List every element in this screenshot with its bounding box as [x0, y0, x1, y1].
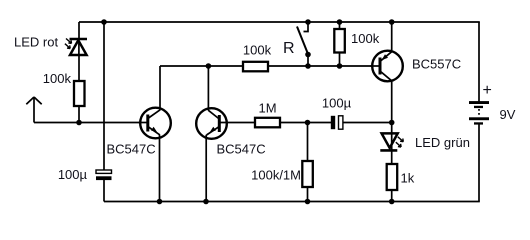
wire LED to R1	[78, 55, 80, 81]
wire cap to LED gruen node	[343, 122, 392, 124]
svg-text:BC547C: BC547C	[107, 142, 156, 157]
resistor 1k (vertical)	[387, 164, 398, 190]
node Q1 emitter / ground	[157, 199, 163, 205]
wire LED to 1k	[391, 150, 393, 164]
wire Q1 emitter	[159, 135, 161, 202]
LED rot (diode, cathode bar top, triangle up)	[70, 39, 88, 55]
LED gruen (diode, triangle down, cathode bar bottom)	[380, 133, 397, 150]
capacitor 100u (left, polarized)	[96, 170, 112, 180]
svg-text:100k: 100k	[43, 71, 72, 86]
wire BC557 collector	[391, 81, 393, 123]
svg-text:+: +	[483, 82, 492, 99]
node 1k ground	[389, 199, 395, 205]
node BC557 emitter / top rail	[389, 19, 395, 25]
1k label	[401, 171, 415, 186]
LED gruen light arrows	[396, 137, 404, 147]
+ label	[483, 82, 492, 99]
wire Q2 emitter	[205, 135, 207, 202]
wire bottom ground rail	[104, 201, 480, 203]
resistor 100k (horizontal)	[243, 62, 268, 72]
node switch pivot	[305, 52, 311, 58]
9V label	[500, 107, 516, 122]
node LED gruen / BC557 collector	[389, 120, 395, 126]
capacitor 100u (horizontal, polarized)	[331, 116, 343, 129]
node 100k/1M ground	[305, 199, 311, 205]
svg-text:1k: 1k	[401, 171, 415, 186]
wire cap to bottom rail	[103, 180, 105, 202]
wire battery top	[478, 22, 480, 102]
wire 1k to ground	[391, 190, 393, 202]
resistor 100k/1M (vertical)	[302, 161, 313, 187]
wire 100k vertical bottom stub	[339, 53, 341, 67]
battery 9V	[469, 101, 489, 125]
node 1M / 100k-1M junction	[305, 120, 311, 126]
100u label (left)	[58, 167, 88, 182]
resistor 1M (horizontal)	[255, 118, 280, 128]
BC557C label	[412, 57, 461, 72]
svg-text:BC547C: BC547C	[217, 142, 266, 157]
svg-text:R: R	[283, 40, 295, 57]
svg-text:100k: 100k	[351, 31, 380, 46]
resistor 100k (left, vertical)	[74, 81, 85, 106]
wire 1M to junction	[280, 122, 331, 124]
node Q2 emitter / ground	[203, 199, 209, 205]
100u label (horizontal cap)	[322, 96, 352, 111]
resistor 100k (middle, vertical)	[334, 29, 345, 53]
wire Q2 base to 1M	[219, 122, 255, 124]
LED rot label	[14, 35, 58, 50]
svg-text:100k: 100k	[243, 43, 272, 58]
100k label (middle vertical)	[351, 31, 380, 46]
switch R	[297, 22, 308, 66]
transistor U3 BC557C (PNP)	[371, 51, 403, 82]
svg-text:BC557C: BC557C	[412, 57, 461, 72]
switch R label	[283, 40, 295, 57]
wire Q1 collector	[159, 66, 161, 110]
wire 100k/1M to ground	[307, 187, 309, 202]
1M label	[258, 101, 276, 116]
wire supply capacitor branch	[103, 22, 105, 170]
input arrow	[26, 97, 41, 123]
wire top supply rail	[79, 21, 480, 23]
svg-text:9V: 9V	[500, 107, 516, 122]
wire 100k vertical top stub	[339, 22, 341, 29]
node switch top	[305, 19, 311, 25]
svg-text:1M: 1M	[258, 101, 276, 116]
node 100k vertical bottom	[337, 63, 343, 69]
node Q2 collector / link wire	[206, 63, 212, 69]
wire battery bottom	[478, 124, 480, 202]
wire node to LED gruen	[391, 123, 393, 134]
node switch bottom	[305, 63, 311, 69]
svg-text:LED grün: LED grün	[415, 135, 470, 150]
wire junction to 100k/1M	[307, 123, 309, 162]
100k/1M label	[251, 168, 301, 183]
svg-text:100µ: 100µ	[58, 167, 88, 182]
svg-text:LED rot: LED rot	[14, 35, 58, 50]
wire collector link (y=66)	[160, 65, 380, 67]
100k label (left)	[43, 71, 72, 86]
node top rail / cap branch	[101, 19, 107, 25]
BC547C label (Q2)	[217, 142, 266, 157]
LED gruen label	[415, 135, 470, 150]
wire Q2 collector	[207, 66, 209, 110]
node LED/R1 junction	[76, 120, 82, 126]
wire Q1 base horizontal	[34, 122, 148, 124]
wire R1 to base node	[78, 106, 80, 123]
wire BC557 emitter to rail	[391, 22, 393, 52]
transistor Q1 BC547C	[139, 108, 171, 139]
transistor Q2 BC547C (mirrored)	[196, 108, 227, 139]
svg-text:100k/1M: 100k/1M	[251, 168, 301, 183]
100k label (horizontal resistor)	[243, 43, 272, 58]
wire LED rot branch top	[78, 22, 80, 39]
svg-text:100µ: 100µ	[322, 96, 352, 111]
node 100k vertical top	[337, 19, 343, 25]
BC547C label (Q1)	[107, 142, 156, 157]
LED rot light arrows	[65, 39, 72, 49]
